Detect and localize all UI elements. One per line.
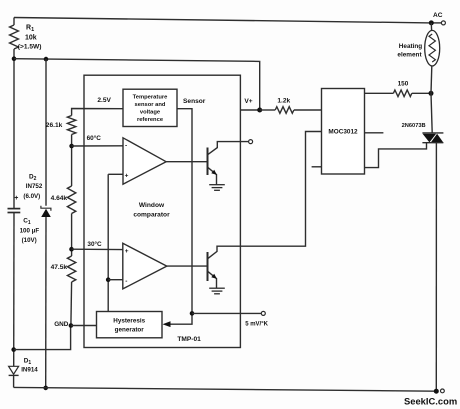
- temperature sensor block: [123, 89, 177, 126]
- svg-text:30°C: 30°C: [87, 240, 102, 248]
- wire: V+ pin of TMP-01: [240, 109, 259, 111]
- wire: MOC3012 gate drive to triac: [365, 143, 427, 168]
- ground (Q1 emitter): [209, 185, 225, 191]
- svg-text:10k: 10k: [25, 35, 37, 42]
- svg-text:V+: V+: [244, 98, 252, 105]
- svg-text:Temperature: Temperature: [133, 95, 168, 101]
- wire: AC terminal stub: [431, 22, 441, 24]
- wire: left rail (R1 bottom to C1): [13, 49, 15, 209]
- wire: A1 output to Q1 base: [166, 161, 207, 163]
- junction: D2 branch: [44, 57, 49, 62]
- svg-text:sensor and: sensor and: [135, 102, 166, 108]
- wire: MOC3012 pin 6 to 150 resistor: [365, 92, 394, 94]
- junction node V+: [257, 108, 262, 113]
- zener diode D2: [41, 206, 51, 211]
- wire: C1 to GND node: [13, 213, 15, 367]
- svg-text:D2: D2: [29, 174, 37, 182]
- diode D1: [9, 366, 19, 374]
- wire: 47.5k to GND node: [70, 282, 73, 326]
- svg-text:AC: AC: [433, 12, 443, 19]
- wire: A2 minus lead: [108, 279, 123, 281]
- wire: MOC3012 pin 3 stub: [312, 166, 322, 168]
- wire: AC to heating element: [430, 23, 432, 31]
- transistor Q1: [208, 142, 249, 185]
- wire: divider 26.1k to 4.64k: [71, 135, 73, 187]
- wire: 1.2k to MOC3012 pin 1: [294, 109, 322, 111]
- svg-text:+: +: [125, 248, 129, 255]
- junction: C1/D1/GND: [11, 347, 16, 352]
- junction: 60C tap: [69, 144, 74, 149]
- svg-text:voltage: voltage: [140, 109, 161, 115]
- svg-text:Window: Window: [139, 202, 165, 209]
- capacitor C1: [8, 208, 21, 210]
- junction: 150 / heating element / triac: [429, 91, 434, 96]
- svg-text:60°C: 60°C: [87, 134, 102, 142]
- svg-text:-: -: [125, 142, 127, 149]
- svg-text:C1: C1: [23, 218, 31, 226]
- transistor Q2: [208, 132, 322, 289]
- junction: bottom rail right corner: [434, 389, 439, 394]
- svg-text:GND: GND: [54, 321, 69, 328]
- svg-text:SeekIC.com: SeekIC.com: [404, 396, 457, 407]
- wire: 5mV/K output branch: [192, 312, 261, 314]
- wire: 2.5V line to sensor block: [72, 109, 123, 116]
- wire: comparator plus/minus interconnect: [107, 174, 109, 311]
- svg-text:Hysteresis: Hysteresis: [113, 317, 145, 324]
- svg-text:150: 150: [398, 81, 409, 88]
- junction: left rail / V+ rail: [12, 56, 17, 61]
- resistor 47.5k: [67, 256, 75, 282]
- junction: D2 / bottom rail: [43, 386, 48, 391]
- resistor 26.1k: [67, 116, 75, 135]
- IC TMP-01 outline: [84, 75, 240, 347]
- wire: 150 to right rail: [412, 92, 431, 94]
- svg-text:+: +: [14, 195, 18, 202]
- optocoupler MOC3012: [322, 89, 365, 175]
- comparator A2: [123, 243, 167, 289]
- wire: divider 4.64k to 47.5k: [71, 214, 73, 257]
- resistor 4.64k: [67, 186, 75, 214]
- wire: left rail R1 top lead: [13, 18, 15, 26]
- svg-text:Sensor: Sensor: [183, 98, 206, 105]
- heating element: [425, 30, 440, 66]
- svg-text:MOC3012: MOC3012: [328, 128, 358, 135]
- resistor 150: [393, 90, 411, 97]
- svg-text:5 mV/°K: 5 mV/°K: [245, 322, 268, 328]
- svg-text:+: +: [125, 173, 129, 180]
- svg-text:2N6073B: 2N6073B: [402, 123, 426, 129]
- svg-text:100 μF: 100 μF: [20, 228, 40, 235]
- hysteresis generator block: [97, 312, 163, 338]
- svg-text:-: -: [125, 278, 127, 285]
- wire: V+ supply rail: [14, 59, 260, 110]
- wire: 30C line to comparator A2: [72, 248, 123, 250]
- triac 2N6073B: [422, 133, 443, 143]
- resistor R1: [10, 25, 19, 49]
- wire: V+ to 1.2k: [260, 109, 276, 111]
- wire: sensor output line: [166, 109, 192, 325]
- svg-text:element: element: [397, 52, 422, 59]
- junction: interconnect / A2 minus: [106, 277, 111, 282]
- wire: 60C line to comparator A1: [72, 145, 123, 147]
- junction: 30C tap: [69, 247, 74, 252]
- svg-text:47.5k: 47.5k: [51, 264, 68, 271]
- comparator A1: [123, 138, 166, 184]
- svg-text:comparator: comparator: [133, 212, 170, 219]
- svg-text:reference: reference: [137, 117, 164, 123]
- svg-text:1.2k: 1.2k: [277, 98, 290, 105]
- wire: D1 to bottom rail: [13, 375, 15, 387]
- wire: triac MT1 to bottom rail: [435, 143, 437, 392]
- resistor 1.2k: [275, 107, 294, 114]
- wire: D2 to bottom rail: [45, 217, 47, 388]
- svg-text:2.5V: 2.5V: [97, 97, 111, 104]
- wire: D2 branch from V+ rail: [45, 59, 47, 206]
- svg-text:D1: D1: [24, 358, 32, 366]
- wire: MOC3012 pin 4 stub: [365, 132, 384, 134]
- wire: top AC line: [14, 18, 431, 23]
- wire: A2 output to Q2 base: [167, 265, 208, 267]
- arrow into hysteresis generator: [163, 321, 171, 327]
- junction: AC / heating element: [429, 20, 434, 25]
- svg-text:(>1.5W): (>1.5W): [18, 44, 42, 51]
- ground (Q2 emitter): [209, 288, 225, 294]
- wire: heating element to 150 junction: [430, 66, 433, 93]
- node 5mV/K output terminal: [261, 311, 265, 315]
- junction: sensor / 5mV branch: [190, 311, 195, 316]
- node Q1 collector terminal: [249, 140, 253, 144]
- wire: bottom rail: [14, 387, 437, 391]
- svg-text:4.64k: 4.64k: [51, 195, 68, 202]
- svg-text:(6.0V): (6.0V): [23, 193, 40, 200]
- wire: GND to hysteresis generator: [71, 325, 97, 327]
- node AC terminal: [441, 21, 445, 25]
- svg-text:generator: generator: [115, 326, 145, 333]
- wire: junction to triac MT2: [431, 93, 432, 133]
- svg-text:(10V): (10V): [22, 237, 37, 244]
- svg-text:IN752: IN752: [26, 183, 43, 190]
- svg-text:26.1k: 26.1k: [46, 122, 63, 129]
- svg-text:Heating: Heating: [399, 43, 423, 50]
- junction: GND node: [69, 323, 74, 328]
- node bottom right terminal: [441, 389, 445, 393]
- svg-text:TMP-01: TMP-01: [177, 336, 201, 343]
- svg-text:IN914: IN914: [21, 367, 38, 374]
- wire: GND branch to divider bottom: [14, 326, 71, 350]
- svg-text:R1: R1: [26, 25, 34, 34]
